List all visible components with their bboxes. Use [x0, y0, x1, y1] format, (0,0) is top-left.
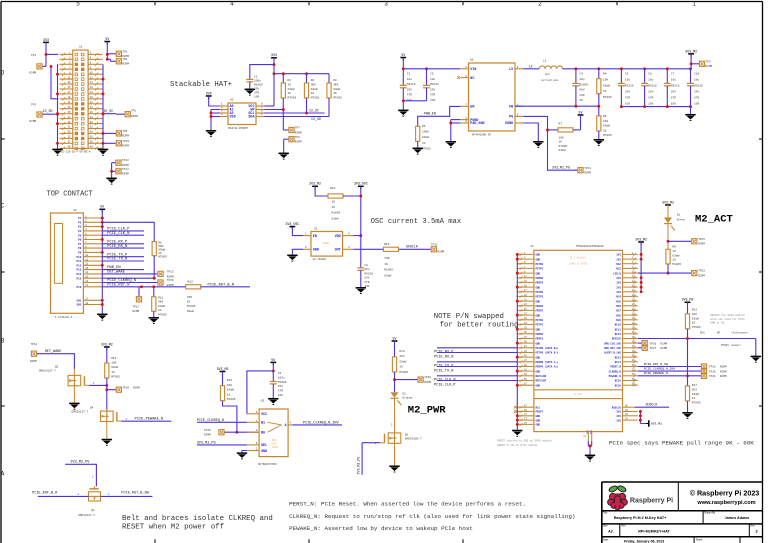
svg-text:MT005: MT005	[692, 402, 701, 405]
svg-text:PCIE_CLKREQ_N_INV: PCIE_CLKREQ_N_INV	[303, 421, 340, 425]
note OSC current	[371, 218, 462, 226]
wire 3V3_OSC net	[343, 186, 362, 237]
wire J1 left gnd bus	[56, 64, 59, 148]
svg-text:25V: 25V	[694, 91, 699, 94]
svg-text:10%: 10%	[694, 103, 699, 106]
svg-text:OSC current 3.5mA max: OSC current 3.5mA max	[371, 218, 462, 226]
svg-text:C7: C7	[671, 73, 675, 76]
svg-text:M.2 Socket: M.2 Socket	[570, 256, 587, 260]
svg-text:1%: 1%	[559, 141, 563, 144]
svg-text:P15: P15	[77, 277, 82, 280]
svg-text:5V: 5V	[271, 358, 275, 362]
test point TP12	[431, 243, 445, 253]
svg-text:R2MM: R2MM	[167, 275, 174, 278]
svg-text:PETP2: PETP2	[536, 296, 544, 299]
svg-text:PETN1: PETN1	[536, 319, 544, 322]
svg-text:1%: 1%	[187, 301, 191, 304]
power flag 5V (J2)	[99, 205, 105, 213]
svg-text:10u: 10u	[430, 78, 435, 81]
wire U3 VCC	[247, 362, 275, 413]
svg-text:X7R: X7R	[430, 94, 435, 97]
svg-text:10%: 10%	[625, 103, 630, 106]
svg-text:TP28: TP28	[424, 376, 431, 379]
node PCIE_CLKREQ_N (U3)	[197, 419, 247, 423]
svg-text:10K: 10K	[559, 137, 564, 140]
svg-text:MT005: MT005	[187, 305, 196, 308]
svg-text:TP22: TP22	[698, 270, 705, 273]
svg-text:TP9: TP9	[122, 130, 127, 133]
svg-text:TP24: TP24	[122, 168, 129, 171]
svg-text:PERST_N: PCIe Reset. When asse: PERST_N: PCIe Reset. When asserted low t…	[289, 500, 526, 507]
svg-text:PCIE_CLK_P: PCIE_CLK_P	[434, 383, 456, 387]
test point TP19	[701, 369, 727, 374]
svg-text:3V3_M2: 3V3_M2	[685, 49, 697, 53]
svg-text:MTSE8030407M300G3F: MTSE8030407M300G3F	[576, 245, 604, 248]
svg-text:P16: P16	[77, 286, 82, 289]
test point TP28	[395, 376, 432, 384]
test point TP6 (IO_SC)	[102, 109, 138, 118]
svg-text:R2MM: R2MM	[424, 381, 431, 384]
svg-text:MT005: MT005	[288, 97, 297, 100]
svg-text:D1: D1	[677, 214, 681, 217]
svg-text:NC4: NC4	[616, 296, 621, 299]
svg-text:TP13: TP13	[167, 270, 174, 273]
svg-text:3V3: 3V3	[616, 277, 621, 280]
svg-text:M3216: M3216	[671, 85, 680, 88]
note belt and braces	[122, 515, 273, 531]
svg-text:FB: FB	[509, 105, 513, 109]
wire FB divider	[515, 105, 600, 108]
svg-text:X7R: X7R	[278, 390, 283, 393]
node PCIE_RST_B_R	[201, 283, 250, 287]
svg-text:NC9: NC9	[616, 319, 621, 322]
svg-text:EN: EN	[470, 106, 474, 110]
svg-text:M3216: M3216	[364, 272, 373, 275]
svg-text:M3216: M3216	[648, 85, 657, 88]
svg-text:REFCLKP: REFCLKP	[536, 380, 547, 383]
svg-text:P6: P6	[78, 239, 82, 242]
svg-text:NC7SB3157P6X: NC7SB3157P6X	[258, 463, 277, 466]
svg-text:63mW: 63mW	[227, 389, 234, 392]
svg-text:X7R: X7R	[694, 97, 699, 100]
svg-text:also not used for PCIe: also not used for PCIe	[710, 317, 745, 321]
svg-text:10u: 10u	[648, 79, 653, 82]
svg-text:ASEK: ASEK	[323, 242, 330, 245]
svg-text:25V: 25V	[671, 91, 676, 94]
power flag 5V (R7)	[578, 110, 584, 118]
svg-text:TP23: TP23	[122, 159, 129, 162]
svg-text:B0: B0	[261, 432, 265, 436]
logo wordmark	[630, 498, 673, 505]
svg-text:PCIE_RX_N: PCIE_RX_N	[107, 245, 127, 249]
svg-text:GND: GND	[261, 450, 267, 454]
svg-text:DMG3415U-7: DMG3415U-7	[405, 437, 422, 440]
svg-text:GND: GND	[313, 249, 319, 253]
svg-text:GND: GND	[536, 370, 541, 373]
wire R7 to 5V	[580, 115, 582, 130]
test point TP5 (IO_SD)	[30, 104, 59, 123]
svg-text:SH1: SH1	[77, 299, 82, 302]
svg-text:25V: 25V	[364, 277, 369, 280]
svg-text:R7: R7	[559, 122, 563, 125]
svg-text:Raspberry Pi: Raspberry Pi	[630, 498, 673, 505]
svg-text:GND or NC: GND or NC	[710, 322, 724, 325]
test point TP3	[691, 60, 712, 68]
ground (TP8)	[279, 153, 289, 159]
node 3V3_M2_PG (Q1)	[65, 461, 96, 487]
svg-text:R2MM: R2MM	[661, 342, 668, 345]
svg-text:1%: 1%	[692, 397, 696, 400]
svg-text:1%: 1%	[384, 263, 388, 266]
svg-text:Green: Green	[677, 218, 686, 221]
svg-text:R2MM: R2MM	[133, 310, 140, 313]
svg-text:R2MM: R2MM	[661, 347, 668, 350]
svg-text:NC6: NC6	[616, 305, 621, 308]
note PERST shorted	[497, 439, 552, 448]
ground (output caps)	[685, 115, 695, 121]
note DEVSLP	[710, 313, 745, 325]
svg-text:M1005: M1005	[278, 381, 287, 384]
svg-text:GND: GND	[536, 254, 541, 257]
svg-text:32.768kHz: 32.768kHz	[313, 257, 327, 261]
ground (R17)	[682, 413, 692, 419]
svg-text:PERP3: PERP3	[536, 282, 544, 285]
svg-text:NC12: NC12	[615, 333, 622, 336]
svg-text:63mW: 63mW	[422, 136, 429, 139]
transistor Q3	[39, 366, 95, 387]
svg-text:J3: J3	[530, 245, 534, 248]
wire TP23/TP24 gnd	[111, 163, 113, 178]
svg-text:2u2: 2u2	[545, 73, 550, 76]
wire U1 pgnd	[449, 120, 460, 141]
svg-text:M2_PWR: M2_PWR	[408, 404, 447, 416]
test point TP20	[107, 386, 140, 392]
svg-text:U3: U3	[261, 399, 265, 402]
title copyright	[690, 488, 760, 506]
power flag 5V (U1)	[400, 53, 406, 61]
note Stackable HAT+	[170, 81, 233, 89]
wire 3V3_M2 output rail	[563, 67, 692, 70]
svg-text:1%: 1%	[333, 92, 337, 95]
svg-text:GND: GND	[536, 424, 541, 427]
svg-text:NOTE P/N swapped: NOTE P/N swapped	[434, 313, 504, 321]
note M2_ACT	[695, 214, 733, 226]
svg-text:C3: C3	[430, 73, 434, 76]
node PCIE_RST_B_R (Q1)	[32, 491, 88, 496]
svg-text:63mW: 63mW	[332, 217, 339, 220]
svg-text:M1005: M1005	[579, 83, 588, 86]
svg-text:PEDET: PEDET	[536, 411, 544, 414]
svg-text:4: 4	[230, 1, 234, 8]
svg-text:R2MM: R2MM	[720, 375, 727, 378]
svg-text:SUSCLK: SUSCLK	[646, 403, 658, 407]
svg-text:PERN2: PERN2	[536, 305, 544, 308]
svg-text:GND: GND	[536, 342, 541, 345]
resistor R17	[685, 384, 700, 412]
svg-text:1%: 1%	[111, 371, 115, 374]
svg-text:P1: P1	[78, 217, 82, 220]
svg-text:R16: R16	[700, 332, 705, 335]
test point TP10	[103, 140, 129, 148]
svg-text:PERN3: PERN3	[536, 277, 544, 280]
svg-text:R2MM: R2MM	[30, 72, 37, 75]
svg-text:M2_ACT: M2_ACT	[695, 214, 733, 226]
svg-text:3V3_OSC: 3V3_OSC	[285, 222, 299, 226]
power flag 3V3_M2 (R15)	[101, 342, 113, 350]
svg-text:PCIE_RST_B_SW: PCIE_RST_B_SW	[644, 362, 668, 366]
svg-text:ALERT_N_1V8: ALERT_N_1V8	[604, 352, 621, 355]
svg-text:R2MM: R2MM	[30, 360, 37, 363]
svg-text:IO_SC: IO_SC	[103, 109, 113, 113]
svg-text:R2MM: R2MM	[698, 274, 705, 277]
svg-text:3V3: 3V3	[616, 411, 621, 414]
svg-text:MT005: MT005	[158, 313, 167, 316]
test point TP4	[30, 54, 43, 75]
svg-text:current_mes: current_mes	[541, 79, 559, 82]
no-connect J3 NC1/PEDET	[514, 406, 517, 413]
svg-text:PERN1: PERN1	[536, 333, 544, 336]
wire Q3 source gnd	[73, 386, 75, 403]
svg-text:3V3_M2: 3V3_M2	[309, 182, 321, 186]
svg-text:© Raspberry Pi 2023: © Raspberry Pi 2023	[690, 488, 760, 497]
svg-text:TP27: TP27	[650, 347, 657, 350]
svg-text:PWR_EN: PWR_EN	[424, 112, 436, 116]
svg-text:GND: GND	[536, 356, 541, 359]
svg-text:MT005 <power>: MT005 <power>	[721, 343, 742, 347]
connector J2	[51, 209, 103, 319]
wire OUT / SUSCLK	[354, 245, 431, 250]
wire U2 gnd pins	[210, 110, 220, 131]
svg-text:Date:: Date:	[603, 538, 609, 541]
svg-text:R2MM: R2MM	[698, 243, 705, 246]
svg-text:R2MM: R2MM	[438, 250, 445, 253]
svg-text:3V3: 3V3	[616, 254, 621, 257]
svg-text:TP4: TP4	[31, 54, 36, 57]
svg-text:63mW: 63mW	[187, 310, 194, 313]
wire 3V3 to J1 pin1	[43, 42, 59, 66]
svg-text:B1: B1	[261, 422, 265, 426]
wire Q2 gate (3V3_M2_PG)	[357, 443, 381, 475]
svg-text:M3216: M3216	[407, 83, 416, 86]
test point TP11	[578, 167, 591, 175]
svg-text:X1: X1	[314, 227, 318, 230]
svg-text:2: 2	[538, 1, 542, 8]
test point TP8	[284, 136, 302, 153]
wire 3V3_M2 riser	[690, 54, 693, 69]
svg-text:B: B	[1, 337, 5, 344]
svg-text:C4: C4	[579, 73, 583, 76]
resistor R5	[416, 125, 431, 150]
wire output caps gnd	[620, 105, 692, 114]
capacitor C6	[641, 69, 657, 107]
svg-text:10u: 10u	[364, 268, 369, 271]
svg-text:3V3_M2: 3V3_M2	[651, 422, 662, 426]
svg-text:5V: 5V	[579, 110, 583, 114]
svg-text:NC8: NC8	[616, 314, 621, 317]
svg-text:GND: GND	[536, 419, 541, 422]
svg-text:A2: A2	[608, 530, 613, 534]
ground (R5)	[413, 148, 423, 154]
svg-text:3042 & 3030: 3042 & 3030	[569, 263, 587, 266]
capacitor C4	[572, 69, 588, 106]
svg-text:Raspberry Pi M.2 M-Key HAT+: Raspberry Pi M.2 M-Key HAT+	[614, 516, 667, 520]
svg-text:1K: 1K	[288, 83, 292, 86]
inductor L1	[539, 60, 562, 83]
svg-text:R2MM: R2MM	[584, 172, 591, 175]
ground (U1 PGND)	[446, 142, 456, 148]
svg-text:1K: 1K	[332, 201, 336, 204]
svg-text:X7R: X7R	[407, 94, 412, 97]
no-connect U1 NC	[457, 76, 460, 79]
svg-text:TP5: TP5	[31, 104, 36, 107]
power flag 3V3_OSC (X1)	[285, 222, 299, 230]
power flag 3V3_M2 (R13)	[682, 298, 694, 306]
resistor R14	[392, 341, 408, 392]
svg-text:X7R: X7R	[648, 97, 653, 100]
svg-text:R2MM: R2MM	[295, 131, 302, 134]
node DET_WAKE (J2)	[102, 271, 157, 275]
svg-text:SMB_CLK_1V8: SMB_CLK_1V8	[604, 342, 621, 345]
capacitor C7	[664, 69, 680, 107]
svg-text:PETN2: PETN2	[536, 291, 544, 294]
note PERST_N	[289, 500, 526, 507]
svg-text:VCC: VCC	[261, 413, 267, 417]
ground (J2)	[97, 314, 107, 320]
svg-text:PCIE_TX_N: PCIE_TX_N	[107, 258, 127, 262]
test point TP7	[289, 127, 302, 135]
node I2_SD	[264, 117, 329, 121]
wire input caps gnd	[402, 99, 427, 109]
size row	[603, 525, 758, 534]
svg-text:PERP2: PERP2	[536, 310, 544, 313]
test point TP1	[107, 50, 129, 58]
svg-text:R9: R9	[672, 246, 676, 249]
wire Q4 source gnd	[106, 422, 108, 439]
power flag 5V (J1)	[104, 37, 110, 45]
svg-text:<Tolerance>: <Tolerance>	[731, 331, 749, 335]
ground (J3 left)	[512, 431, 522, 437]
resistor R1	[281, 74, 296, 110]
svg-text:1: 1	[692, 1, 696, 8]
svg-text:10%: 10%	[254, 96, 259, 99]
svg-text:SUSCLK: SUSCLK	[406, 245, 418, 249]
svg-text:M24C32-FMN6TP: M24C32-FMN6TP	[228, 127, 249, 130]
svg-text:James Adams: James Adams	[725, 516, 750, 520]
wire EN / PWR_EN	[418, 106, 461, 126]
svg-text:1%: 1%	[603, 129, 607, 132]
svg-text:C0G: C0G	[579, 94, 584, 97]
svg-text:PERST is NC on PCIe module: PERST is NC on PCIe module	[497, 443, 538, 447]
node PCIE_CLK_N (J2)	[102, 232, 144, 236]
svg-text:Ref: Ref	[622, 525, 626, 528]
node PCIE_RX_P (J2)	[102, 240, 144, 244]
svg-text:5V: 5V	[105, 37, 109, 41]
svg-text:TP26: TP26	[650, 342, 657, 345]
svg-text:3V3: 3V3	[616, 282, 621, 285]
svg-text:TP20: TP20	[123, 386, 130, 389]
svg-text:R2MM: R2MM	[122, 164, 129, 167]
svg-text:10K: 10K	[227, 384, 232, 387]
wire SH1/SH2 gnd	[588, 441, 591, 455]
svg-text:P7: P7	[78, 243, 82, 246]
svg-text:Q2: Q2	[405, 433, 409, 436]
node LED_N wire	[638, 272, 670, 275]
test point TP21	[701, 373, 727, 378]
svg-text:X7R: X7R	[254, 92, 259, 95]
svg-text:PERN0 (SATA A-): PERN0 (SATA A-)	[536, 360, 559, 364]
test point TP15	[668, 238, 705, 246]
svg-text:PCIE_RST_B_SW: PCIE_RST_B_SW	[121, 491, 149, 495]
node PCIE_RST_B_SW (J3)	[638, 362, 701, 367]
svg-text:DET_WAKE: DET_WAKE	[107, 271, 125, 275]
svg-text:3V3_OSC: 3V3_OSC	[354, 182, 368, 186]
svg-text:EN: EN	[313, 235, 317, 239]
svg-text:1-1734248-5: 1-1734248-5	[55, 316, 73, 319]
ground (X1)	[287, 255, 297, 261]
svg-text:10%: 10%	[278, 394, 283, 397]
svg-text:M KEY: M KEY	[574, 393, 582, 396]
node PCIE_RX_N (J2)	[102, 245, 144, 249]
test point TP26	[638, 341, 668, 346]
test point TP2	[107, 58, 129, 66]
svg-text:R2MM: R2MM	[122, 134, 129, 137]
capacitor C1	[246, 76, 263, 99]
svg-text:C: C	[1, 202, 5, 209]
test point TP25	[204, 429, 259, 437]
ground (J1 left)	[52, 149, 62, 155]
resistor R9	[666, 246, 681, 274]
svg-text:R2MM: R2MM	[133, 386, 140, 389]
power flag 5V (R14)	[392, 336, 398, 344]
svg-text:2K2: 2K2	[399, 355, 404, 358]
note M2_PWR	[408, 404, 447, 416]
svg-text:GND: GND	[536, 300, 541, 303]
svg-text:3V3_M2: 3V3_M2	[682, 298, 694, 302]
wire SGND	[523, 123, 538, 141]
svg-text:NC1: NC1	[536, 406, 541, 409]
power flag 3V3_M2 (J3 lower)	[646, 420, 662, 426]
svg-text:10u: 10u	[671, 79, 676, 82]
svg-text:63mW: 63mW	[288, 88, 295, 91]
svg-text:63mW: 63mW	[158, 305, 165, 308]
svg-text:R2MM: R2MM	[706, 65, 713, 68]
transistor Q2	[375, 432, 422, 445]
svg-text:Stackable HAT+: Stackable HAT+	[170, 81, 233, 89]
svg-text:63mW: 63mW	[311, 88, 318, 91]
resistor R11	[152, 287, 167, 317]
svg-text:PCIE_CLKREQ_N_INV: PCIE_CLKREQ_N_INV	[644, 367, 676, 371]
svg-text:3V3_M2: 3V3_M2	[662, 200, 674, 204]
power flag 3V3_M2 (osc)	[309, 182, 321, 190]
logo raspberry pi	[608, 485, 628, 510]
svg-text:PETN0 (SATA B+): PETN0 (SATA B+)	[536, 346, 559, 350]
svg-text:1%: 1%	[288, 92, 292, 95]
svg-text:NC13: NC13	[615, 356, 622, 359]
svg-text:10u: 10u	[625, 79, 630, 82]
svg-text:P11: P11	[77, 260, 82, 263]
svg-text:10u: 10u	[407, 78, 412, 81]
node 3V3_M2_PG (U3)	[197, 441, 247, 445]
svg-text:X7R: X7R	[671, 97, 676, 100]
svg-text:3V3_M2_PG: 3V3_M2_PG	[357, 457, 361, 475]
svg-text:PG: PG	[509, 116, 513, 120]
svg-text:J1: J1	[79, 46, 83, 49]
svg-text:63mW: 63mW	[692, 393, 699, 396]
svg-text:PCIE_RX_P: PCIE_RX_P	[107, 240, 128, 244]
capacitor C8 text	[364, 264, 373, 288]
node PCIE_RX_P (J3)	[434, 348, 517, 355]
wire U3 gnd	[242, 451, 247, 453]
